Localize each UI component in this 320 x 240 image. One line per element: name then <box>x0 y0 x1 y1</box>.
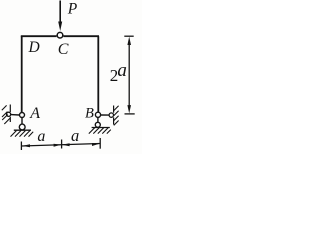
member DC-top chord <box>21 35 99 37</box>
svg-text:a: a <box>71 126 79 145</box>
svg-text:D: D <box>28 39 40 56</box>
support A: ground line <box>14 129 31 131</box>
support A: ground hatching <box>11 131 34 137</box>
support B: vertical link to ground <box>97 117 99 122</box>
support A: wall roller circle <box>7 112 11 116</box>
support B: wall line <box>113 106 115 125</box>
bottom dimension: center tick <box>61 140 63 149</box>
support B: wall hatching <box>114 106 119 126</box>
bottom dimension: arrow right end <box>92 143 100 146</box>
bottom dimension: arrows at center tick <box>54 144 62 147</box>
dimension 2a: bottom arrowhead <box>127 105 131 113</box>
support A: ground roller circle <box>19 124 25 130</box>
support A: vertical link to ground <box>21 118 23 125</box>
dimension 2a: extension tick top <box>124 35 133 37</box>
member AD-left column <box>21 36 23 112</box>
support B: horizontal link to wall <box>101 114 110 116</box>
svg-text:B: B <box>85 105 94 121</box>
support A: wall hatching <box>2 105 10 124</box>
hinge C circle <box>57 32 63 38</box>
svg-text:a: a <box>37 128 45 145</box>
member B-right column <box>97 36 99 112</box>
svg-text:A: A <box>29 105 40 122</box>
dimension 2a: extension tick bottom <box>125 113 135 115</box>
dimension 2a: top arrowhead <box>127 37 131 45</box>
support B: pin circle B <box>95 112 100 117</box>
svg-text:a: a <box>117 60 127 81</box>
bottom dimension: right tick <box>99 138 101 149</box>
bottom dimension: arrow left end <box>22 144 30 147</box>
dimension 2a: vertical dim line <box>128 40 130 110</box>
load P arrow <box>59 1 61 23</box>
bottom dimension: dim line a-a <box>22 144 100 147</box>
support A: horizontal link to wall <box>11 114 19 116</box>
support B: ground roller circle <box>95 122 100 127</box>
support B: ground hatching <box>89 128 111 134</box>
svg-text:P: P <box>67 1 78 18</box>
svg-text:C: C <box>58 41 69 58</box>
support A: pin circle A <box>20 113 25 118</box>
bottom dimension: left tick <box>20 142 22 151</box>
support A: wall line <box>9 105 11 123</box>
support B: ground line <box>92 127 110 129</box>
support B: wall roller circle <box>109 113 113 117</box>
